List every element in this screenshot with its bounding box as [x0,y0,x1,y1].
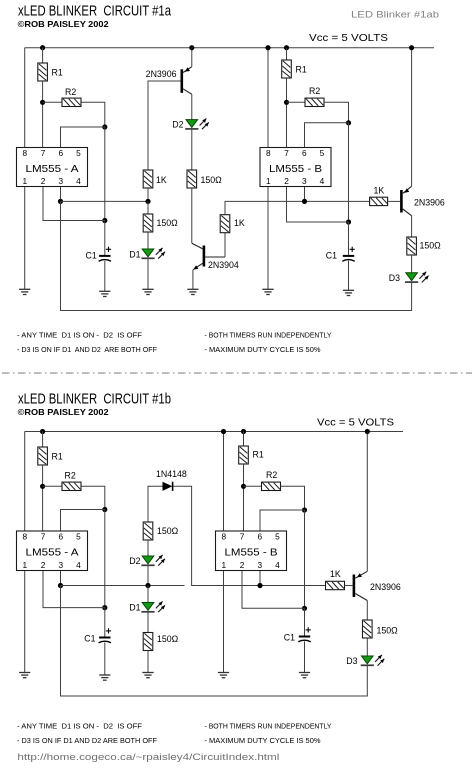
svg-text:- D3 IS ON IF D1 AND D2 ARE: - D3 IS ON IF D1 AND D2 ARE BOTH OFF [17,345,157,354]
node R2/pin6 junction 1b-A [102,507,107,512]
svg-text:- ANY TIME D1 IS ON - D2 IS: - ANY TIME D1 IS ON - D2 IS OFF [17,331,142,340]
ground pin1 (1b-B) [218,672,229,674]
svg-text:- D3 IS ON IF D1 AND D2 ARE BO: - D3 IS ON IF D1 AND D2 ARE BOTH OFF [17,736,157,745]
svg-text:LM555 - A: LM555 - A [26,164,79,175]
svg-text:R2: R2 [65,87,76,97]
wire 1K up to output B line 1a [225,201,370,214]
wire pin3 output 1a-A [60,184,62,201]
svg-text:5: 5 [76,148,81,158]
wire 150ohm to D3 1a [411,255,413,273]
wire 150ohm to Q2 collector 1a [191,188,193,243]
wire pin1 to ground 1a-B [267,184,269,289]
ground pin1 (1a-A) [19,288,30,290]
svg-text:5: 5 [76,531,81,541]
svg-text:3: 3 [58,560,63,570]
resistor 150ohm (1a D1) [143,214,153,232]
wire junction to pin6 1b-B [260,510,305,534]
wire 150ohm to D2 1b [147,540,149,556]
wire pin2 to junction 1b-A [43,568,105,608]
wire junction to C1 1b-A [104,608,106,637]
wire junction to C1 1a-B [348,222,350,255]
svg-text:4: 4 [320,176,325,186]
node LED junction 1b [145,583,150,588]
resistor 150ohm (1b top) [143,522,153,540]
wire junction down to pin2 node 1a-B [348,123,350,222]
LED D3 (1b) [362,656,374,664]
svg-text:8: 8 [22,148,27,158]
transistor Q3 2N3906 (1a right) [400,190,403,213]
svg-text:1K: 1K [374,186,385,196]
svg-text:2: 2 [41,560,46,570]
op-amp/timer U1 LM555-A (1a) [17,148,88,187]
ground pin1 (1b-A) [19,672,30,674]
node rail/pin8-B junction 1a [265,45,270,50]
resistor 150ohm (1a D3) [407,237,417,255]
svg-text:LM555 - B: LM555 - B [269,164,322,175]
ground pin1 (1a-B) [262,288,273,290]
wire R2 right to pins 6/2 column 1a-A [81,102,105,127]
ground C1 (1b-B) [299,672,310,674]
svg-text:http://home.cogeco.ca/~rpaisle: http://home.cogeco.ca/~rpaisley4/Circuit… [17,752,279,762]
resistor 150ohm (1b bottom) [143,633,153,651]
wire emitter Q1 to rail 1a [191,48,193,67]
node pin2/C1 junction 1a-B [346,219,351,224]
svg-text:- MAXIMUM DUTY CYCLE IS 50%: - MAXIMUM DUTY CYCLE IS 50% [205,736,321,745]
svg-text:6: 6 [58,148,63,158]
separator dashed line [2,372,472,374]
wire junction down to pin2 node 1a-A [104,127,106,221]
wire rail to R1 1a-A [42,48,44,63]
wire pin3 output 1b-A [60,568,62,586]
node R1/R2 junction 1a-A [40,100,45,105]
wire R1 bottom to pin7 1a-A [42,81,44,150]
svg-text:6: 6 [302,148,307,158]
wire C1 to ground 1b-B [304,641,306,672]
LED D1 (1b) [142,603,154,611]
wire emitter Q4 to rail 1b [366,432,368,572]
node 1K/150 junction colA 1a [145,199,150,204]
wire Vcc rail 1b [25,431,403,433]
wire pin8 LM555-A drop 1b [24,432,26,535]
svg-text:D1: D1 [129,250,140,260]
wire junction to pin6 1b-A [61,510,105,535]
resistor R2 (1b-B) [262,482,281,490]
wire pin1 to ground 1b-A [24,568,26,673]
wire D1 to ground 1a [147,258,149,289]
svg-text:2: 2 [240,560,245,570]
wire R2 left lead 1a-B [287,101,306,103]
node pin2/C1 junction 1a-A [102,218,107,223]
node rail/pin8-B junction 1b [221,429,226,434]
svg-text:6: 6 [257,531,262,541]
wire Q2 base to 1K 1a [224,233,226,258]
ground D1 (1a) [142,288,153,290]
wire junction down to pin2 node 1b-A [104,510,106,608]
wire 150ohm to ground 1b [147,651,149,673]
node output A junction 1a [58,199,63,204]
wire R2 left lead 1a-A [43,101,62,103]
svg-text:150Ω: 150Ω [157,526,179,536]
svg-text:2: 2 [284,176,289,186]
svg-text:3: 3 [58,176,63,186]
wire diode cathode to output B line 1b [173,486,325,585]
ground C1 (1a-B) [343,289,354,291]
svg-text:R1: R1 [52,452,63,462]
wire R1 bottom to pin7 1b-B [243,464,245,534]
svg-text:3: 3 [302,176,307,186]
resistor 150ohm (1b D3) [363,620,373,638]
svg-text:R2: R2 [65,471,76,481]
wire base feed 2N3906 1a-left [148,81,181,170]
wire rail to R1 1b-A [42,432,44,448]
LED D1 (1a) [142,249,154,257]
capacitor C1 (1b-A) [99,637,110,639]
node pin2/C1 junction 1b-B [302,606,307,611]
node R1/R2 junction 1b-A [40,484,45,489]
svg-text:D3: D3 [389,273,400,283]
svg-text:5: 5 [320,148,325,158]
svg-text:D3: D3 [346,656,357,666]
wire 150ohm to D3 1b [366,638,368,656]
svg-text:6: 6 [58,531,63,541]
wire Vcc rail 1a [25,47,434,49]
wire R2 left lead 1b-B [244,485,262,487]
svg-text:1: 1 [221,560,226,570]
wire R1 bottom to pin7 1b-A [42,465,44,534]
op-amp/timer U4 LM555-B (1b) [216,531,287,571]
svg-text:5: 5 [275,531,280,541]
wire C1 to ground 1b-A [104,642,106,675]
capacitor C1 (1a-B) [343,255,354,257]
svg-text:LED Blinker #1ab: LED Blinker #1ab [351,10,439,20]
svg-text:2N3906: 2N3906 [146,69,177,79]
svg-text:D2: D2 [129,556,140,566]
svg-text:150Ω: 150Ω [157,634,179,644]
wire pin2 to junction 1a-A [43,184,105,221]
ground C1 (1a-A) [99,290,110,292]
svg-text:1N4148: 1N4148 [156,469,187,479]
wire pin2 to junction 1a-B [287,184,349,222]
wire node to 150ohm colA 1a [147,201,149,214]
transistor Q1 2N3906 (1a left) [181,69,184,93]
svg-text:4: 4 [76,560,81,570]
wire D1 to 150ohm 1b [147,612,149,633]
resistor R1 (1b-A) [38,447,48,465]
wire output A down and across to D3 return 1a [61,201,412,310]
resistor 1K (1a base Q3, horizontal) [370,197,388,205]
svg-text:3: 3 [257,560,262,570]
wire output A to 1K/150 node 1a [61,200,149,202]
svg-text:2N3906: 2N3906 [370,582,401,592]
svg-text:2: 2 [41,176,46,186]
wire pin3 output 1b-B [259,568,261,586]
resistor 1K (1a base Q2) [220,215,230,233]
svg-text:1K: 1K [234,218,245,228]
resistor R2 (1b-A) [62,482,81,490]
wire junction to C1 1b-B [304,608,306,635]
node R2/pin6 junction 1a-B [346,120,351,125]
wire pin2 to junction 1b-B [242,568,305,608]
svg-text:150Ω: 150Ω [157,218,179,228]
node rail/Q4 junction 1b [365,429,370,434]
resistor R2 (1a-A) [62,98,81,106]
wire node to D1 1b [147,586,149,603]
node R2/pin6 junction 1a-A [102,124,107,129]
svg-text:7: 7 [284,148,289,158]
wire pin8 LM555-A drop from rail [24,48,26,150]
resistor 1K (1a base of Q1) [143,170,153,188]
svg-text:R2: R2 [309,86,320,96]
wire C1 to ground 1a-A [104,261,106,292]
svg-text:C1: C1 [284,633,295,643]
LED D2 (1b) [142,556,154,564]
wire R2 right to pins 6/2 column 1b-A [81,486,105,509]
svg-text:LM555 - B: LM555 - B [225,548,278,559]
node rail/R1 junction 1a-A [40,45,45,50]
diode D4 1N4148 (1b) [163,482,173,491]
svg-text:2N3904: 2N3904 [208,260,239,270]
svg-text:- ANY TIME D1 IS ON - D2 IS: - ANY TIME D1 IS ON - D2 IS OFF [17,722,142,731]
resistor 150ohm (1a D2) [187,170,197,188]
wire emitter Q2 to ground 1a [192,270,194,290]
wire junction to pin6 1a-B [305,123,349,150]
node pin2/C1 junction 1b-A [102,605,107,610]
svg-text:©ROB PAISLEY 2002: ©ROB PAISLEY 2002 [18,408,109,417]
wire LED column top / diode anode 1b [148,486,163,522]
node output A junction 1b [58,583,63,588]
wire junction to C1 1a-A [104,221,106,255]
resistor R1 (1a-B) [282,60,292,78]
svg-text:1: 1 [266,176,271,186]
svg-text:1: 1 [22,176,27,186]
svg-text:Vcc = 5 VOLTS: Vcc = 5 VOLTS [309,33,388,44]
node output B junction 1b [257,583,262,588]
svg-text:4: 4 [76,176,81,186]
wire R1 bottom to pin7 1a-B [286,78,288,150]
wire pin8 LM555-B drop 1a [267,48,269,150]
wire rail to R1 1a-B [286,48,288,60]
ground Q2 emitter (1a) [187,288,198,290]
svg-text:xLED BLINKER CIRCUIT #1a: xLED BLINKER CIRCUIT #1a [18,4,172,20]
svg-text:8: 8 [266,148,271,158]
resistor R1 (1b-B) [239,446,249,464]
resistor R1 (1a-A) [38,63,48,81]
svg-text:C1: C1 [84,634,95,644]
wire C1 to ground 1a-B [348,261,350,291]
svg-text:4: 4 [275,560,280,570]
svg-text:R1: R1 [253,450,264,460]
LED D2 (1a) [186,120,198,128]
wire emitter Q3 to rail 1a [411,48,413,187]
resistor 1K (1b, horizontal) [326,581,345,589]
svg-text:D2: D2 [172,120,183,130]
wire output A down to D3 return 1b [61,586,368,697]
svg-text:Vcc = 5 VOLTS: Vcc = 5 VOLTS [317,418,394,429]
svg-text:150Ω: 150Ω [420,241,442,251]
wire 1K to Q3 base 1a [388,200,401,202]
node output B junction 1a [302,199,307,204]
node rail/Q3 junction 1a [409,45,414,50]
wire rail to R1 1b-B [243,432,245,447]
wire pin1 to ground 1a-A [24,184,26,289]
svg-text:7: 7 [41,148,46,158]
node rail/R1 junction 1b-A [40,429,45,434]
svg-text:xLED BLINKER CIRCUIT #1b: xLED BLINKER CIRCUIT #1b [18,392,171,408]
resistor R2 (1a-B) [305,98,324,106]
op-amp/timer U2 LM555-B (1a) [260,148,331,187]
wire R2 right to column 1a-B [324,102,349,123]
node rail/Q1 junction 1a [189,45,194,50]
wire collector Q4 to 150ohm 1b [366,601,368,621]
svg-text:©ROB PAISLEY 2002: ©ROB PAISLEY 2002 [18,20,109,29]
svg-text:8: 8 [221,531,226,541]
svg-text:150Ω: 150Ω [377,626,399,636]
wire collector Q1 to D2 1a [191,94,193,119]
wire 1K to Q4 base 1b [345,585,353,587]
svg-text:1K: 1K [156,175,167,185]
wire pin8 LM555-B drop 1b [223,432,225,535]
node R1/R2 junction 1b-B [241,484,246,489]
ground LED chain (1b) [142,672,153,674]
wire pin1 to ground 1b-B [223,568,225,673]
svg-text:1: 1 [22,560,27,570]
svg-text:- BOTH TIMERS RUN INDEPENDENTL: - BOTH TIMERS RUN INDEPENDENTLY [205,331,332,340]
capacitor C1 (1b-B) [299,636,310,638]
transistor Q2 2N3904 (1a) [203,246,206,267]
wire output A to LED node 1b [61,585,185,587]
svg-text:R1: R1 [52,68,63,78]
svg-text:1K: 1K [330,569,341,579]
wire pin3 output 1a-B [304,184,306,201]
node rail/R1-B junction 1a [284,45,289,50]
svg-text:D1: D1 [129,603,140,613]
svg-text:C1: C1 [86,251,97,261]
LED D3 (1a) [406,273,418,281]
svg-text:7: 7 [41,531,46,541]
svg-text:8: 8 [22,531,27,541]
svg-text:- BOTH TIMERS RUN INDEPENDENTL: - BOTH TIMERS RUN INDEPENDENTLY [205,722,332,731]
node rail/R1-B junction 1b [241,429,246,434]
svg-text:150Ω: 150Ω [201,175,223,185]
capacitor C1 (1a-A) [99,255,110,257]
node R2/pin6 junction 1b-B [302,507,307,512]
ground C1 (1b-A) [99,674,110,676]
svg-text:- MAXIMUM DUTY CYCLE IS 50%: - MAXIMUM DUTY CYCLE IS 50% [205,345,321,354]
wire junction down to pin2 node 1b-B [304,510,306,608]
svg-text:C1: C1 [326,251,337,261]
svg-text:2N3906: 2N3906 [414,198,445,208]
wire junction to pin6 1a-A [61,127,105,150]
wire D2 to node 1b [147,565,149,585]
wire collector Q3 to 150ohm 1a [411,216,413,237]
node R1/R2 junction 1a-B [284,100,289,105]
transistor Q4 2N3906 (1b) [353,575,356,598]
op-amp/timer U3 LM555-A (1b) [17,531,88,571]
svg-text:7: 7 [240,531,245,541]
wire R2 left lead 1b-A [43,485,62,487]
svg-text:R2: R2 [266,470,277,480]
wire 1K to node 1a colA [147,188,149,201]
wire D2 to 150ohm 1a [191,129,193,170]
svg-text:LM555 - A: LM555 - A [26,548,79,559]
svg-text:R1: R1 [296,65,307,75]
wire R2 right to column 1b-B [281,486,305,510]
wire 150ohm to D1 1a [147,232,149,249]
